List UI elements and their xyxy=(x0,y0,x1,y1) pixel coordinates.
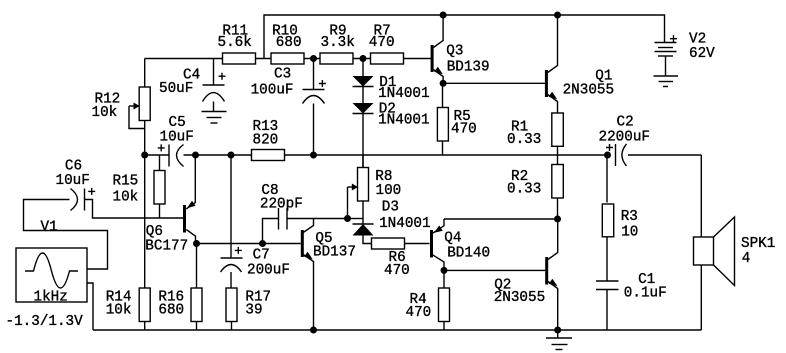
svg-text:BD139: BD139 xyxy=(447,60,490,76)
svg-text:680: 680 xyxy=(158,303,184,319)
svg-text:BC177: BC177 xyxy=(145,239,188,255)
node Q4 collector / R4 / Q2 base xyxy=(441,267,448,274)
resistor R7 xyxy=(369,24,404,65)
resistor R5 xyxy=(437,83,476,155)
ground symbol on bottom rail xyxy=(546,330,572,350)
svg-text:50uF: 50uF xyxy=(159,81,193,97)
wire Q3 emitter to Q1 base xyxy=(443,82,545,84)
resistor R1 xyxy=(507,113,563,165)
resistor R10 xyxy=(271,24,304,65)
svg-text:C2: C2 xyxy=(617,115,634,131)
transistor Q4 BD140 xyxy=(430,219,490,270)
node C7 branch on mid rail xyxy=(228,152,235,159)
svg-text:470: 470 xyxy=(406,305,432,321)
resistor R14 xyxy=(106,288,151,322)
resistor R9 xyxy=(320,24,355,65)
svg-text:Q3: Q3 xyxy=(446,44,463,60)
signal source V1 xyxy=(16,220,87,306)
battery V2 62V xyxy=(655,32,716,77)
transistor Q5 BD137 xyxy=(301,219,356,331)
svg-text:BD137: BD137 xyxy=(313,244,356,260)
wire main mid rail (output/feedback) xyxy=(145,154,608,156)
svg-text:62V: 62V xyxy=(689,46,715,62)
transistor Q1 2N3055 xyxy=(545,15,614,113)
potentiometer R8 xyxy=(348,155,402,219)
capacitor C1 xyxy=(596,272,667,330)
svg-text:D3: D3 xyxy=(382,199,399,215)
capacitor C2 xyxy=(599,115,702,167)
svg-text:C7: C7 xyxy=(253,248,270,264)
transistor Q6 BC177 xyxy=(145,155,195,255)
svg-text:820: 820 xyxy=(253,133,279,149)
resistor R16 xyxy=(158,244,202,331)
svg-text:470: 470 xyxy=(451,122,477,138)
diode D3 1N4001 xyxy=(353,199,431,243)
wire C6 left to V1 top terminal xyxy=(24,200,108,270)
svg-text:10: 10 xyxy=(621,225,638,241)
wire Q4 collector to Q2 base xyxy=(444,269,545,271)
wire resistor row R11-R10-R9-R7 to Q3 base xyxy=(145,58,431,60)
svg-text:1kHz: 1kHz xyxy=(34,290,68,306)
svg-text:1N4001: 1N4001 xyxy=(378,86,429,102)
capacitor C8 xyxy=(260,183,348,243)
svg-text:10k: 10k xyxy=(113,190,139,206)
node Q3 emitter / R5 / Q1 base xyxy=(440,80,447,87)
svg-text:-1.3/1.3V: -1.3/1.3V xyxy=(6,314,84,330)
diode D2 1N4001 xyxy=(353,87,430,168)
svg-text:SPK1: SPK1 xyxy=(741,236,775,252)
resistor R2 xyxy=(507,165,563,220)
capacitor C7 with branch from mid rail xyxy=(221,155,290,288)
svg-text:470: 470 xyxy=(384,263,410,279)
node Q6 collector / R16 / base wire xyxy=(193,240,200,247)
svg-text:2N3055: 2N3055 xyxy=(563,83,614,99)
diode D1 1N4001 xyxy=(353,59,430,103)
node Q5 emitter on bottom rail xyxy=(310,327,317,334)
wire Q4 emitter to R2/Q2 node xyxy=(444,218,558,220)
node Q1 collector on top rail xyxy=(554,12,561,19)
node R2 bottom / Q2 collector / Q4 emitter xyxy=(554,216,561,223)
node C8 tap on Q6-Q5 wire xyxy=(259,240,266,247)
capacitor C5 xyxy=(158,115,194,167)
svg-text:0.1uF: 0.1uF xyxy=(624,286,667,302)
svg-text:1N4001: 1N4001 xyxy=(378,112,429,128)
svg-text:2200uF: 2200uF xyxy=(599,130,650,146)
resistor R11 xyxy=(218,24,256,65)
capacitor C4 xyxy=(159,59,226,112)
svg-text:200uF: 200uF xyxy=(247,263,290,279)
ground below V2 xyxy=(654,76,679,87)
svg-text:V1: V1 xyxy=(41,220,58,236)
svg-text:Q6: Q6 xyxy=(146,224,163,240)
svg-text:1N4001: 1N4001 xyxy=(379,216,430,232)
resistor R3 xyxy=(602,155,638,281)
wire C6 right plate to Q6 base xyxy=(85,200,184,219)
wire Q6 collector to Q5 base xyxy=(197,243,301,245)
svg-text:3.3k: 3.3k xyxy=(321,35,355,51)
node C2 / R3 on mid rail xyxy=(604,152,611,159)
svg-text:R3: R3 xyxy=(621,209,638,225)
resistor R6 xyxy=(372,238,430,279)
svg-text:100uF: 100uF xyxy=(251,83,294,99)
svg-text:39: 39 xyxy=(245,303,262,319)
potentiometer R12 xyxy=(92,87,151,129)
resistor R17 xyxy=(226,288,271,330)
resistor R13 xyxy=(252,119,285,161)
svg-text:680: 680 xyxy=(276,35,302,51)
svg-text:10uF: 10uF xyxy=(160,129,194,145)
wire V1 bottom terminal to ground rail xyxy=(87,283,93,330)
svg-text:10uF: 10uF xyxy=(56,173,90,189)
node left rail / mid rail xyxy=(141,152,148,159)
svg-text:100: 100 xyxy=(376,183,402,199)
capacitor C6 xyxy=(56,159,96,211)
svg-text:4: 4 xyxy=(742,251,751,267)
svg-text:0.33: 0.33 xyxy=(507,182,541,198)
node Q6 emitter on mid rail xyxy=(192,152,199,159)
svg-text:Q4: Q4 xyxy=(444,231,461,247)
ground below C4 xyxy=(202,112,227,124)
node ground junction on bottom rail xyxy=(554,327,561,334)
label source amplitude xyxy=(6,314,84,330)
svg-text:220pF: 220pF xyxy=(260,196,303,212)
wire top positive rail xyxy=(264,15,665,59)
svg-text:10k: 10k xyxy=(92,105,118,121)
node C3 bottom on mid rail xyxy=(310,152,317,159)
wire bottom ground rail xyxy=(93,329,701,331)
transistor Q3 BD139 xyxy=(431,15,490,83)
svg-text:R15: R15 xyxy=(113,173,139,189)
transistor Q2 2N3055 xyxy=(494,219,558,330)
svg-text:2N3055: 2N3055 xyxy=(494,290,545,306)
svg-text:470: 470 xyxy=(369,35,395,51)
resistor R4 xyxy=(406,270,450,330)
node Q3 collector on top rail xyxy=(440,12,447,19)
node junction R9/R7/D1 xyxy=(360,55,367,62)
speaker SPK1 xyxy=(694,155,776,330)
resistor R15 xyxy=(113,155,166,218)
svg-text:BD140: BD140 xyxy=(447,246,490,262)
svg-text:10k: 10k xyxy=(106,303,132,319)
svg-text:C3: C3 xyxy=(274,66,291,82)
svg-text:5.6k: 5.6k xyxy=(218,35,252,51)
svg-text:0.33: 0.33 xyxy=(507,132,541,148)
node junction R10/R9/C3 xyxy=(310,55,317,62)
wire left rail from top wire down through R12 R14 to bottom rail xyxy=(144,59,146,331)
capacitor C3 xyxy=(251,59,326,156)
node R8 wiper / C8 / Q5 collector / D3 xyxy=(344,215,351,222)
